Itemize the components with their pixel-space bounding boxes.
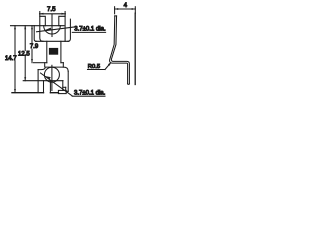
svg-text:14.7: 14.7 — [5, 56, 17, 62]
dimension 7.9 — [31, 26, 33, 63]
vertical centerline bottom hole — [51, 65, 53, 90]
svg-text:7.9: 7.9 — [30, 44, 39, 50]
right foot block — [58, 90, 66, 93]
channel below hole — [43, 81, 45, 93]
flange ledge / 7.9 extension line — [33, 62, 47, 64]
neck walls — [47, 41, 61, 62]
shelf line / 12.5 extension — [23, 80, 63, 82]
svg-text:3.7±0.1 dia.: 3.7±0.1 dia. — [74, 26, 106, 32]
svg-text:12.5: 12.5 — [18, 51, 30, 57]
lower body — [12, 67, 68, 94]
horizontal centerline / datum line — [11, 25, 65, 27]
side view plate — [134, 13, 136, 84]
upper body outer walls — [34, 19, 70, 41]
black terminal block — [49, 48, 58, 55]
leader R0.5 — [105, 62, 111, 69]
bottom edge / 14.7 extension — [12, 92, 44, 94]
dimension 12.5 — [24, 26, 26, 81]
right bottom step — [62, 81, 64, 91]
vertical centerline top hole — [51, 14, 53, 36]
upper body bottom edge — [36, 40, 69, 42]
flange — [33, 63, 63, 67]
leader top hole — [37, 27, 75, 32]
leader bottom hole — [41, 73, 73, 96]
side view leaf spring (bent strip) — [110, 16, 130, 84]
svg-text:R0.5: R0.5 — [88, 64, 100, 70]
svg-text:4: 4 — [124, 2, 128, 9]
bottom hole circle 3.7 dia — [44, 67, 59, 82]
svg-text:7.5: 7.5 — [47, 6, 56, 13]
svg-text:3.7±0.1 dia.: 3.7±0.1 dia. — [74, 90, 106, 96]
top hole: bottom semicircle 3.7 dia — [44, 26, 61, 34]
part top tabs (front view) — [40, 16, 65, 41]
dimension 7.5 top — [40, 12, 66, 17]
dimension 14.7 — [14, 26, 16, 93]
dimension 4 (side view) — [115, 7, 136, 14]
